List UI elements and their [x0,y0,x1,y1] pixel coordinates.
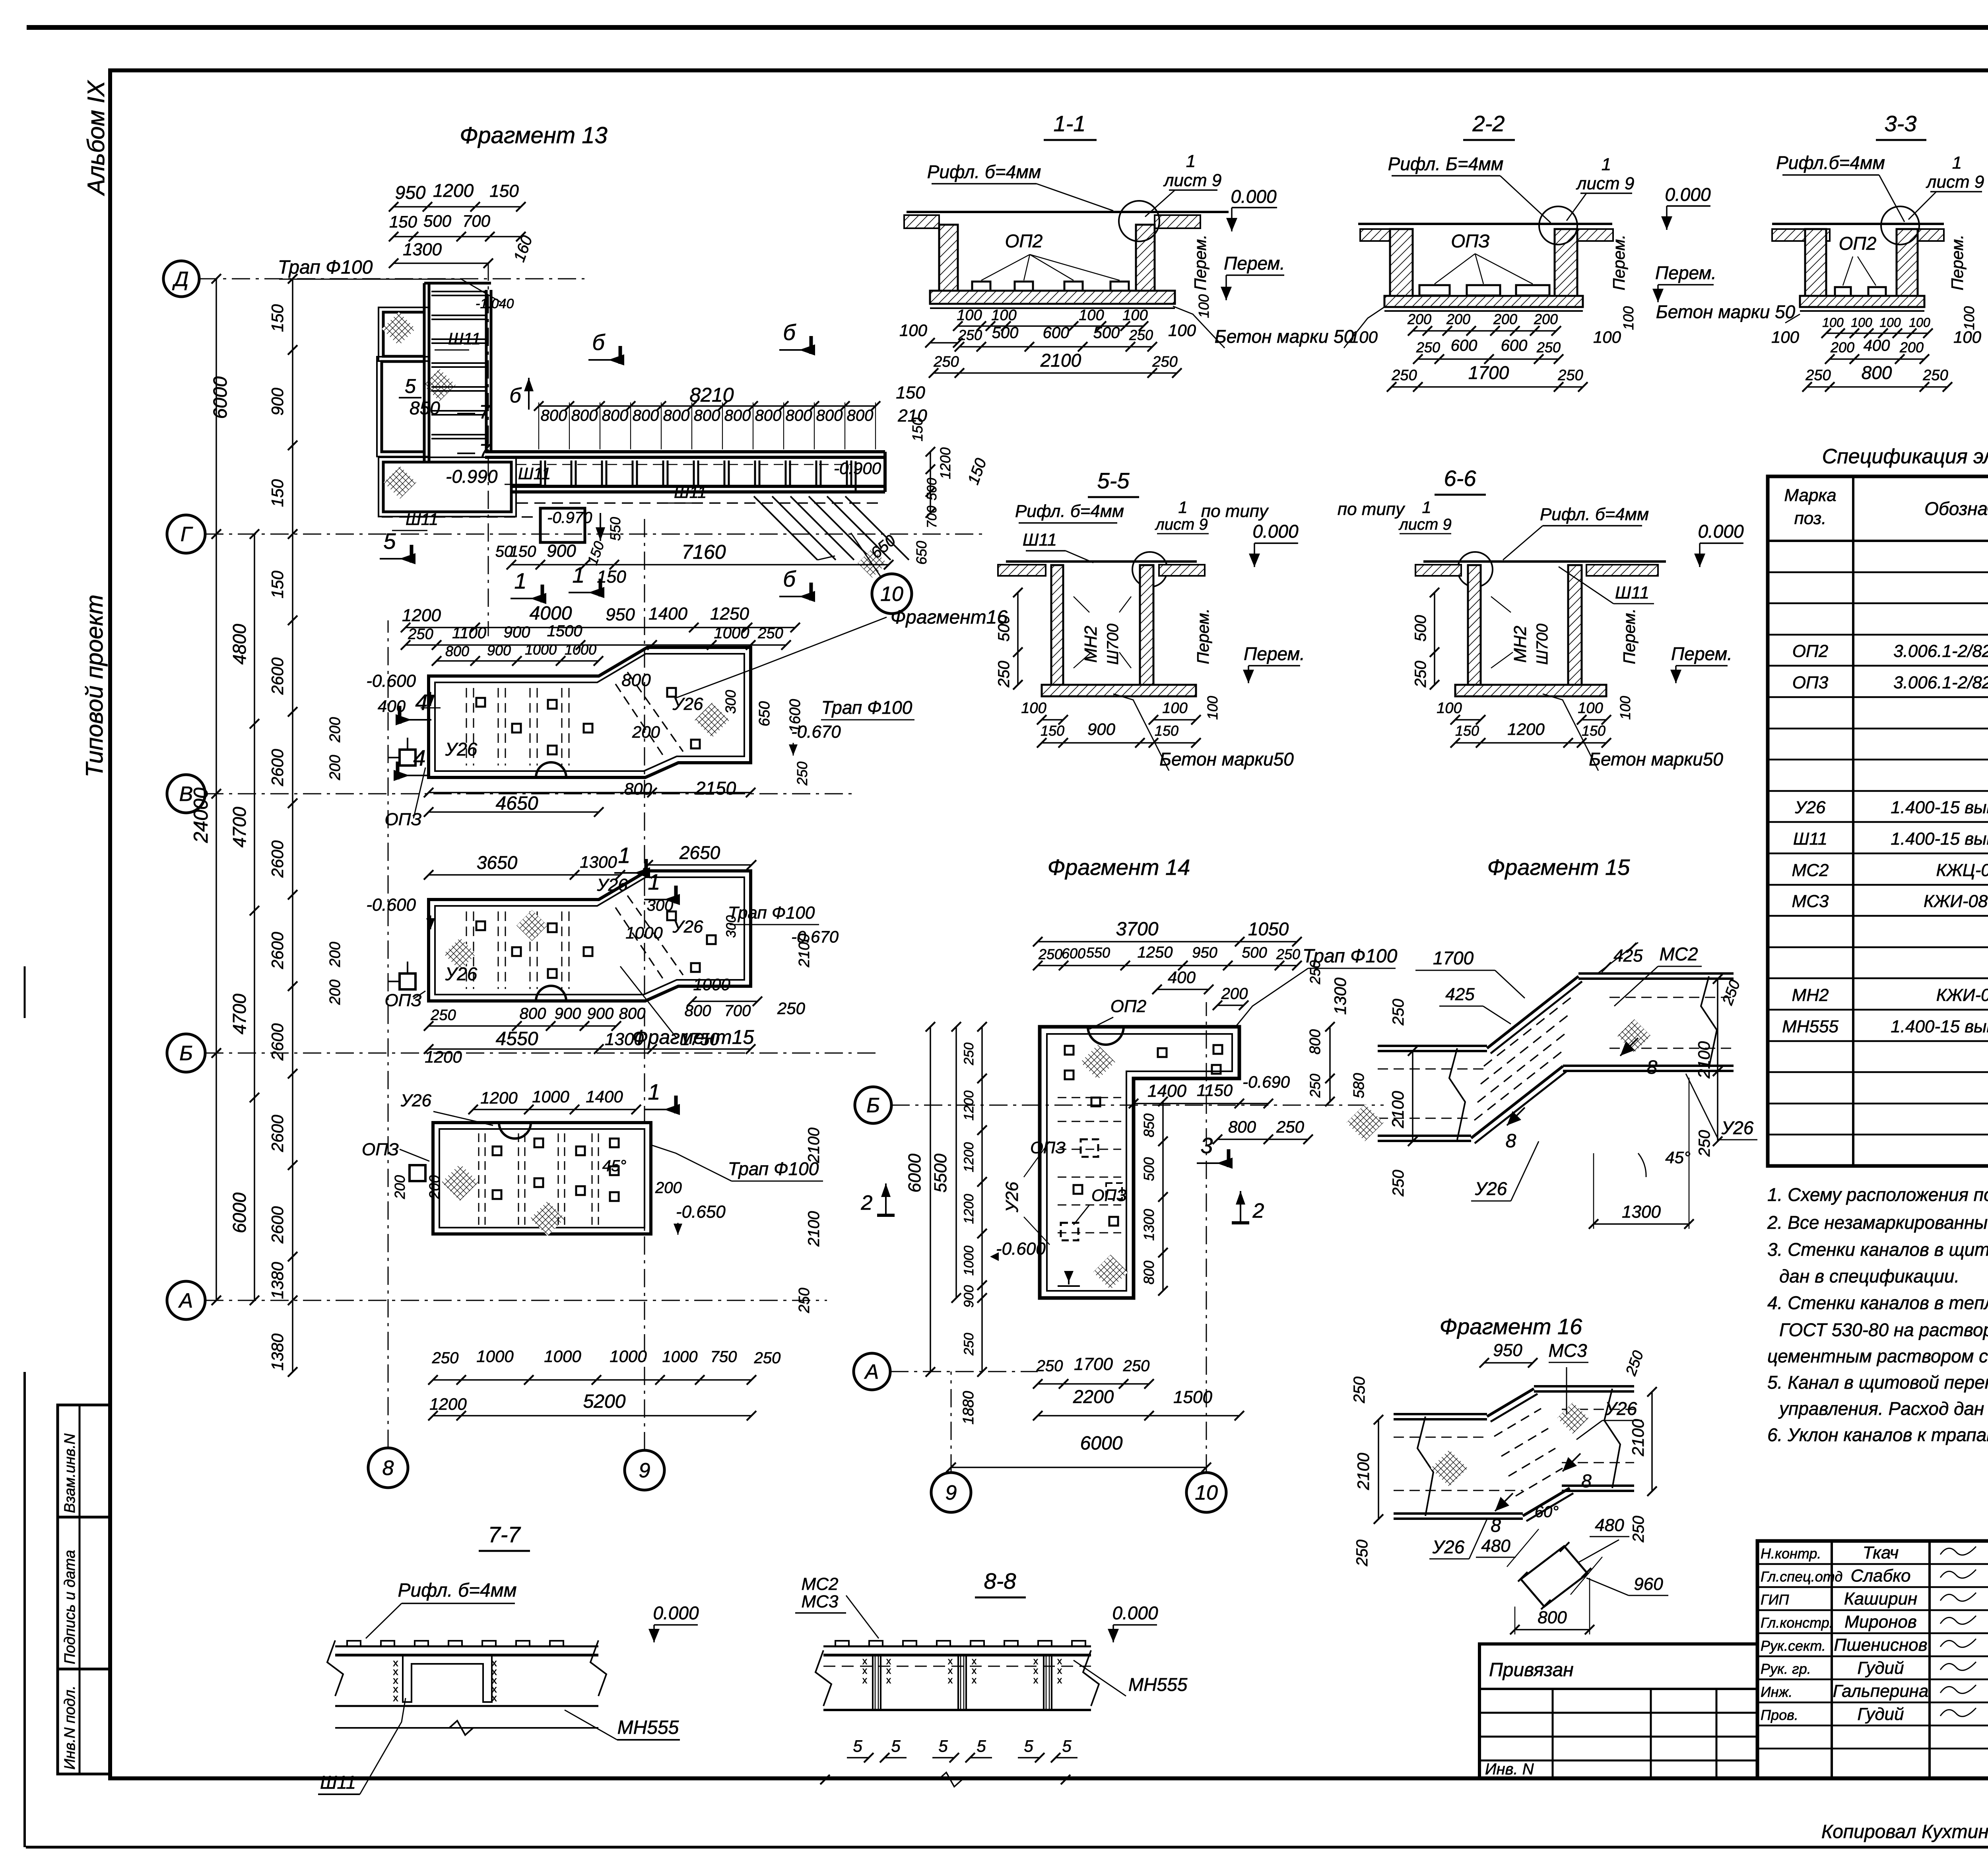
svg-text:500: 500 [423,212,452,230]
svg-text:200: 200 [426,1175,443,1199]
svg-text:лист 9: лист 9 [1576,174,1635,193]
svg-text:700: 700 [462,212,491,230]
svg-text:200: 200 [327,717,344,742]
channel plan row 2 bottom dims [429,1025,616,1027]
svg-text:900: 900 [1087,720,1116,738]
svg-text:Ш11: Ш11 [674,483,707,501]
svg-text:1700: 1700 [1074,1354,1113,1374]
svg-text:600: 600 [1043,324,1070,342]
svg-text:У26: У26 [400,1091,432,1110]
svg-text:-0.600: -0.600 [366,895,416,915]
svg-text:250: 250 [1038,946,1062,962]
top dims above row1 [406,627,795,628]
svg-text:100: 100 [1822,315,1844,330]
svg-text:400: 400 [378,697,406,715]
svg-text:580: 580 [1351,1073,1367,1098]
svg-text:Ш11: Ш11 [406,510,438,528]
svg-text:150: 150 [1041,723,1064,739]
svg-text:1: 1 [1602,155,1611,174]
svg-text:250: 250 [777,999,806,1018]
svg-text:МС2: МС2 [802,1574,839,1594]
svg-text:Рифл. б=4мм: Рифл. б=4мм [1015,501,1124,521]
svg-text:800: 800 [624,779,652,798]
svg-text:У26: У26 [596,875,628,895]
fragment 14 left dims [981,1027,983,1372]
svg-text:6000: 6000 [905,1154,924,1193]
svg-text:500: 500 [1093,324,1120,342]
svg-text:x: x [393,1692,398,1704]
svg-text:8: 8 [382,1457,394,1480]
svg-text:1: 1 [1422,498,1431,517]
svg-text:Перем.: Перем. [1191,235,1209,291]
svg-text:x: x [948,1656,953,1667]
sheet trim line bottom [26,1846,1988,1849]
svg-text:2650: 2650 [679,842,720,863]
margin stamp boxes [58,1405,110,1774]
section 3-3 right wall [1897,229,1918,296]
svg-text:100: 100 [1909,315,1930,330]
svg-text:1300: 1300 [580,853,617,871]
svg-text:1: 1 [648,869,660,894]
svg-text:2600: 2600 [268,749,287,787]
svg-text:МН555: МН555 [617,1717,679,1738]
fragment 14 outline [1040,1027,1239,1298]
svg-text:0.000: 0.000 [1252,521,1299,542]
svg-text:x: x [862,1665,867,1676]
svg-text:800: 800 [619,1005,646,1022]
svg-text:200: 200 [655,1179,682,1197]
svg-text:У26: У26 [1002,1181,1022,1213]
svg-text:250: 250 [1123,1357,1150,1375]
svg-text:1750: 1750 [680,1030,719,1049]
svg-text:Слабко: Слабко [1850,1566,1910,1585]
svg-text:250: 250 [961,1333,977,1356]
fragment 16 dashed edges [1394,1437,1487,1438]
svg-text:100: 100 [1953,328,1982,346]
svg-text:250: 250 [1922,367,1948,384]
svg-text:Гл.спец.отд: Гл.спец.отд [1761,1568,1842,1585]
svg-text:МН2: МН2 [1510,626,1530,663]
svg-text:150: 150 [389,212,417,231]
svg-text:100: 100 [1196,294,1212,318]
svg-text:100: 100 [991,307,1016,324]
svg-text:Перем.: Перем. [1655,262,1716,283]
svg-text:Гудий: Гудий [1857,1704,1904,1724]
section 1-1 base slab [930,291,1175,304]
svg-text:500: 500 [1141,1157,1157,1181]
svg-text:960: 960 [1634,1574,1663,1594]
svg-text:950: 950 [395,182,426,203]
svg-text:2100: 2100 [1388,1091,1407,1129]
section 5-5 left wall [1051,565,1063,685]
svg-text:250: 250 [1307,1074,1323,1098]
svg-text:Ш11: Ш11 [448,329,481,348]
svg-text:1050: 1050 [1248,919,1289,939]
svg-text:900: 900 [268,387,287,416]
svg-text:800: 800 [694,407,720,424]
svg-text:1000: 1000 [610,1347,647,1366]
section 1-1 right wall [1136,225,1155,291]
svg-text:150: 150 [268,570,287,598]
svg-text:Перем.: Перем. [1194,608,1212,665]
svg-text:550: 550 [1086,944,1110,961]
svg-text:А: А [864,1360,879,1383]
svg-text:1400: 1400 [648,604,687,624]
svg-text:100: 100 [1593,328,1621,346]
svg-text:У26: У26 [1794,798,1826,817]
svg-text:250: 250 [1152,354,1177,370]
svg-text:1: 1 [514,568,526,593]
svg-text:Б: Б [866,1094,880,1117]
svg-text:400: 400 [1168,968,1196,987]
vertical dim chain 2600s [292,279,293,1372]
svg-text:2100: 2100 [1354,1453,1373,1490]
svg-text:1200: 1200 [937,447,953,479]
section 8-8 bottom dim [825,1779,1066,1780]
svg-text:800: 800 [685,1002,711,1020]
fragment 14 axis circle 10 [1186,1473,1226,1512]
svg-text:3.006.1-2/82.1-2-6.0-1: 3.006.1-2/82.1-2-6.0-1 [1893,641,1988,661]
svg-text:ОП2: ОП2 [1005,231,1043,251]
svg-text:2600: 2600 [268,1115,287,1152]
svg-text:1300: 1300 [1141,1209,1157,1241]
section marker 4 row1 [398,706,402,724]
section 7-7 channel [403,1655,492,1702]
fragment 16 parallelogram detail [1521,1546,1588,1607]
svg-text:6. Уклон каналов к трапам: 6. Уклон каналов к трапам 0.01. [1767,1424,1988,1445]
svg-text:-0.690: -0.690 [1242,1073,1290,1091]
svg-text:1200: 1200 [433,180,474,201]
svg-text:Копировал Кухтинова: Копировал Кухтинова [1821,1821,1988,1842]
svg-text:10: 10 [880,583,903,606]
svg-text:2600: 2600 [268,1023,287,1061]
svg-text:150: 150 [896,383,925,402]
fragment 14 1400/1150 dims [1134,1103,1268,1104]
fragment 16 break marks [1417,1416,1433,1516]
svg-text:Обозначение: Обозначение [1924,498,1988,519]
svg-text:5200: 5200 [583,1391,626,1412]
svg-text:Фрагмент 14: Фрагмент 14 [1048,855,1190,880]
svg-text:Ш11: Ш11 [518,464,551,483]
svg-text:б: б [509,384,522,407]
svg-text:900: 900 [555,1005,581,1022]
svg-text:x: x [886,1675,891,1686]
svg-text:200: 200 [1446,311,1470,327]
svg-text:Гудий: Гудий [1857,1658,1904,1678]
svg-text:8-8: 8-8 [984,1568,1016,1593]
svg-text:1300: 1300 [1331,977,1349,1015]
section 5-5 base slab [1042,685,1196,696]
axis line Б [205,1053,879,1054]
svg-text:800: 800 [663,407,690,424]
svg-text:100: 100 [1961,306,1977,330]
svg-text:Рук.сект.: Рук.сект. [1761,1638,1826,1654]
svg-text:Трап Ф100: Трап Ф100 [728,903,815,923]
svg-text:250: 250 [1805,367,1831,384]
svg-text:550: 550 [607,517,623,541]
svg-text:1.400-15 вып.1 005-40: 1.400-15 вып.1 005-40 [1891,798,1988,817]
svg-text:x: x [492,1692,497,1704]
svg-text:-0.650: -0.650 [676,1202,726,1222]
section 5-5 dims [1017,593,1019,685]
fragment 13 sump [540,508,585,542]
svg-text:5: 5 [1062,1737,1072,1755]
svg-text:У26: У26 [1721,1117,1754,1138]
svg-text:Перем.: Перем. [1224,253,1285,274]
fragment 14 axis circle А [854,1353,890,1390]
sheet trim line top [27,25,1988,30]
axis circle А [167,1281,205,1319]
svg-text:Пров.: Пров. [1761,1707,1798,1723]
section 8-8 five-five dims [847,1757,869,1758]
svg-text:Привязан: Привязан [1489,1659,1574,1681]
svg-text:x: x [1057,1675,1062,1686]
svg-text:150: 150 [268,479,287,507]
svg-text:1000: 1000 [961,1245,977,1276]
fragment 14 axis circle Б [855,1087,891,1123]
svg-text:1200: 1200 [429,1395,467,1413]
fragment 14 top dims [1038,941,1297,942]
svg-text:250: 250 [1390,1170,1407,1197]
svg-text:800: 800 [571,407,598,424]
svg-text:Б: Б [179,1042,193,1065]
svg-text:ГОСТ 530-80 на растворе: ГОСТ 530-80 на растворе марки 50. Внутри… [1779,1319,1988,1340]
section marker 1 row2 [674,886,678,903]
svg-text:1-1: 1-1 [1054,111,1086,136]
section 8-8 break marks [815,1650,831,1706]
axis line А [205,1300,827,1301]
svg-text:x: x [948,1665,953,1676]
svg-text:x: x [1033,1656,1038,1667]
svg-text:800: 800 [1538,1608,1567,1627]
svg-text:1000: 1000 [525,641,557,658]
svg-text:300: 300 [722,690,739,714]
svg-text:250: 250 [1390,999,1407,1026]
svg-text:5: 5 [383,528,396,554]
row 3 top dims [473,1109,636,1110]
svg-text:x: x [886,1665,891,1676]
svg-text:1200: 1200 [1507,720,1545,738]
svg-text:200: 200 [1830,339,1854,356]
axis circle Д [163,261,199,297]
svg-text:Перем.: Перем. [1244,643,1305,664]
svg-text:480: 480 [1595,1516,1624,1535]
svg-text:1700: 1700 [1433,948,1474,968]
axis circle 9 [625,1450,664,1490]
svg-text:250: 250 [1696,1130,1713,1157]
svg-text:250: 250 [1630,1516,1647,1543]
svg-text:7: 7 [479,441,491,462]
channel plan row 1 (У26) [429,647,751,777]
title block left part [1479,1644,1757,1778]
svg-text:1000: 1000 [544,1347,581,1366]
section 5-5 right wall [1140,565,1153,685]
svg-text:Трап Ф100: Трап Ф100 [821,697,912,718]
fragment 15 8 markers [1620,1038,1638,1056]
svg-text:Ш11: Ш11 [320,1772,356,1793]
svg-text:900: 900 [587,1005,614,1022]
fragment 14 section markers [1227,1149,1231,1167]
section 2-2 floor plate [1358,223,1612,225]
svg-text:1: 1 [648,1079,660,1104]
section 3-3 pads [1835,287,1851,296]
svg-text:5500: 5500 [931,1154,950,1193]
svg-text:250: 250 [430,1007,456,1024]
svg-text:2. Все незамаркированные в кан: 2. Все незамаркированные в каналах опорн… [1767,1212,1988,1233]
svg-text:500: 500 [924,478,940,501]
svg-text:500: 500 [992,324,1019,342]
ОПЗ stub row1 [400,750,415,766]
svg-text:Бетон марки 50: Бетон марки 50 [1215,326,1354,347]
svg-text:Фрагмент16: Фрагмент16 [891,607,1008,628]
svg-text:100: 100 [1879,315,1901,330]
svg-text:7-7: 7-7 [488,1522,521,1547]
svg-text:300: 300 [724,915,739,938]
svg-text:250: 250 [1536,339,1561,356]
svg-text:250: 250 [432,1349,459,1367]
svg-text:1000: 1000 [693,975,730,994]
svg-text:Рифл. Б=4мм: Рифл. Б=4мм [1388,153,1504,174]
svg-text:900: 900 [961,1285,977,1308]
channel plan row 2 (Фрагмент 15 ref) [429,871,751,1001]
svg-text:-0.600: -0.600 [996,1239,1046,1259]
svg-text:5-5: 5-5 [1097,468,1130,493]
svg-text:МС3: МС3 [802,1592,839,1611]
fragment 15 crosshatch [1346,1104,1383,1141]
svg-text:800: 800 [1228,1117,1256,1136]
svg-text:У26: У26 [445,739,478,760]
svg-text:Рук. гр.: Рук. гр. [1761,1661,1811,1677]
svg-text:4550: 4550 [496,1028,538,1049]
svg-text:800: 800 [602,407,629,424]
svg-text:ОП3: ОП3 [1792,673,1829,692]
svg-text:МС2: МС2 [1792,861,1829,880]
svg-text:250: 250 [1276,1117,1305,1136]
svg-text:250: 250 [1416,339,1440,356]
svg-text:150: 150 [1155,723,1178,739]
svg-text:6000: 6000 [229,1192,250,1233]
svg-text:1: 1 [1952,153,1962,173]
svg-text:2600: 2600 [268,932,287,970]
section 1-1 pads [972,282,990,291]
svg-text:800: 800 [1141,1261,1157,1284]
svg-text:5: 5 [891,1737,901,1755]
svg-text:900: 900 [487,642,511,659]
row 3 bottom dims [433,1379,751,1381]
svg-text:x: x [862,1675,867,1686]
svg-text:5: 5 [853,1737,862,1755]
svg-text:Ткач: Ткач [1863,1543,1899,1562]
svg-text:Бетон марки 50: Бетон марки 50 [1656,301,1796,322]
svg-text:ОПЗ: ОПЗ [1030,1138,1066,1157]
fragment 14 trap mark [1068,1271,1070,1284]
svg-text:150: 150 [1582,723,1606,739]
svg-text:0.000: 0.000 [1112,1603,1158,1623]
svg-text:-1.040: -1.040 [476,296,514,311]
svg-text:Рифл. б=4мм: Рифл. б=4мм [398,1580,516,1601]
svg-text:5. Канал в щитовой перекрыть: 5. Канал в щитовой перекрыть рифленой ст… [1767,1372,1988,1393]
section 1-1 left wall [939,225,958,291]
svg-text:Гальперина: Гальперина [1833,1681,1929,1701]
svg-text:100: 100 [1771,328,1800,346]
svg-text:900: 900 [547,541,576,561]
svg-text:600: 600 [1062,945,1085,962]
svg-text:8: 8 [1581,1471,1592,1491]
fragment 13 bottom dims [511,564,889,565]
section 2-2 right wall [1555,229,1577,296]
fragment 13 ramp hatch [754,496,817,560]
svg-text:У26: У26 [1475,1178,1507,1199]
svg-text:100: 100 [1204,696,1221,720]
svg-text:45°: 45° [602,1157,627,1175]
section 6-6 right wall [1568,565,1582,685]
svg-text:6000: 6000 [1080,1433,1123,1454]
svg-text:500: 500 [1412,615,1429,642]
title block signature grid [1831,1541,1833,1778]
spec table grid [1768,476,1988,1166]
svg-text:9: 9 [945,1481,957,1504]
svg-text:1150: 1150 [1197,1081,1233,1100]
svg-text:цементным раствором состава 1:: цементным раствором состава 1:2, снаружи… [1767,1346,1988,1366]
svg-text:ОП2: ОП2 [1110,997,1147,1016]
svg-text:200: 200 [1899,339,1924,356]
svg-text:45°: 45° [1665,1148,1691,1167]
fragment 13 section markers [619,346,622,364]
svg-text:по типу: по типу [1338,499,1406,519]
svg-text:2-2: 2-2 [1472,111,1505,136]
svg-text:1000: 1000 [662,1348,698,1366]
fragment 13 bottom room [383,462,511,512]
section 7-7 bottom lines [335,1705,598,1707]
svg-text:2100: 2100 [1040,350,1081,371]
fragment 15 1300 dim [1594,1223,1689,1225]
svg-text:100: 100 [1079,307,1104,324]
section 1-1 floor plate [907,211,1229,213]
svg-text:250: 250 [1353,1540,1371,1567]
svg-text:x: x [886,1656,891,1667]
svg-text:2100: 2100 [805,1211,823,1247]
svg-text:дан в спецификации.: дан в спецификации. [1779,1266,1959,1286]
svg-text:ОПЗ: ОПЗ [384,991,421,1010]
svg-text:5: 5 [938,1737,948,1755]
svg-text:1: 1 [1178,498,1187,517]
svg-text:Фрагмент 16: Фрагмент 16 [1440,1314,1582,1339]
svg-text:200: 200 [1221,985,1248,1003]
svg-text:4. Стенки каналов в тепловом п: 4. Стенки каналов в тепловом пункте выпо… [1767,1292,1988,1313]
svg-text:700: 700 [724,1002,751,1020]
svg-text:7160: 7160 [681,541,726,563]
fragment 15 break marks [1449,1048,1465,1140]
svg-text:1700: 1700 [1468,362,1509,383]
sheet trim line left [23,1372,26,1847]
fragment 16 crosshatch [1431,1449,1468,1486]
svg-text:2100: 2100 [805,1128,823,1164]
svg-text:ГИП: ГИП [1761,1591,1789,1608]
svg-text:3650: 3650 [477,852,518,873]
svg-text:100: 100 [1162,700,1187,717]
svg-text:4800: 4800 [229,624,250,665]
svg-text:МН2: МН2 [1792,985,1829,1005]
svg-text:У26: У26 [445,964,478,984]
svg-text:6000: 6000 [210,376,231,419]
svg-text:x: x [972,1665,977,1676]
svg-text:250: 250 [1412,661,1429,688]
svg-text:200: 200 [1407,311,1431,327]
svg-text:-0.970: -0.970 [547,509,592,527]
svg-text:100: 100 [1021,700,1046,717]
fragment 14 axis circle 9 [931,1473,971,1512]
channel plan row 1 bottom dims [429,792,751,793]
